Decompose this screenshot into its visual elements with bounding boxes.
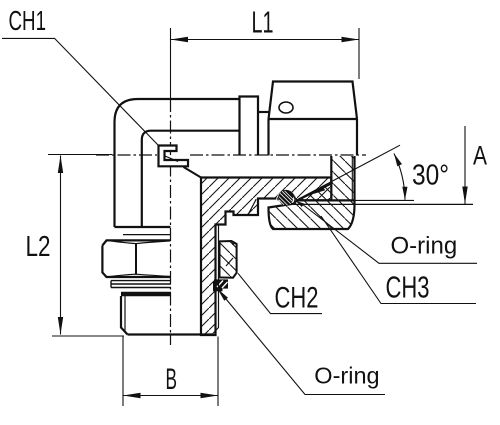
vertical centerline of stud (170, 99, 172, 345)
L2 bottom arrowhead (58, 317, 63, 335)
horizontal centerline through swivel nut (190, 154, 366, 156)
locknut hex facet line (135, 244, 137, 275)
body hex cut profile at centerline (E feature) (159, 146, 189, 167)
O-ring (stud) leader arrowhead (218, 289, 229, 301)
locknut section chamfer tick (226, 258, 233, 266)
B right extension line (217, 337, 219, 407)
elbow body outer contour (115, 99, 240, 227)
svg-text:B: B (166, 363, 178, 396)
L2 bottom extension line (52, 335, 124, 337)
A arrowhead (462, 187, 467, 205)
L1 left arrowhead (171, 37, 189, 42)
O-ring groove outline (278, 191, 295, 200)
nut outer face thin line / A reference line (294, 203, 474, 205)
svg-text:CH2: CH2 (275, 281, 319, 314)
swivel nut cross-section fill (hatched) (269, 156, 355, 229)
stud thread crest line with chamfer (section side) (212, 225, 219, 335)
L1 left extension line (170, 28, 172, 99)
CH3 leader line (321, 216, 476, 304)
svg-text:A: A (473, 141, 487, 171)
arrowhead on 30-degree leg pointing at sealing cone (313, 186, 326, 194)
B dimension line (123, 395, 218, 397)
B left extension line (122, 337, 124, 407)
CH1 leader line (2, 38, 159, 145)
angle 30-degree leg (296, 145, 400, 200)
stud bottom edge (128, 333, 213, 335)
body cross-section (hatched L-shape with flange steps and O-ring groove) (201, 178, 331, 336)
O-ring in nut (section circle) (279, 191, 293, 205)
O-ring groove white pocket (276, 191, 296, 201)
locknut hex cross-section (hatched) (220, 241, 237, 278)
O-ring (nut) leader arrowhead (296, 201, 305, 207)
stud O-ring seal section (black square) (213, 282, 223, 292)
O-ring (nut) leader line (302, 204, 477, 263)
body flange top face (left exterior) (115, 226, 171, 228)
locknut section corner wedge (232, 241, 237, 245)
svg-text:O-ring: O-ring (314, 362, 379, 388)
L2 top extension line (48, 154, 112, 156)
L1 right arrowhead (342, 37, 360, 42)
svg-text:30°: 30° (412, 160, 449, 192)
svg-text:O-ring: O-ring (391, 233, 458, 260)
swivel nut cross-section outline (269, 156, 355, 229)
nut thread minor line (351, 156, 353, 200)
B right arrowhead (201, 393, 219, 398)
elbow body inner corner contour (142, 131, 240, 227)
stud thread root line (left) (124, 296, 126, 331)
exposed thread line under flange (123, 234, 171, 236)
A dimension line (464, 126, 466, 204)
seal ring dark band (exterior) (121, 292, 171, 296)
body hex chamfer inner diagonal (165, 156, 178, 162)
angle dimension arc (394, 154, 405, 200)
horizontal centerline left of body hex (96, 154, 157, 156)
CH2 leader line (238, 273, 322, 313)
svg-text:CH1: CH1 (9, 5, 47, 36)
arc lower arrowhead (402, 187, 407, 200)
seal retaining ring section (dark box) (214, 279, 228, 288)
marking oval on nut face (279, 102, 293, 113)
L2 top arrowhead (58, 156, 63, 174)
O-ring hatch highlights (279, 191, 293, 205)
svg-text:CH3: CH3 (386, 270, 430, 305)
B left arrowhead (123, 393, 141, 398)
washer exterior lines (111, 281, 171, 288)
nut sealing face thick line (295, 199, 355, 201)
svg-text:L1: L1 (252, 6, 274, 40)
O-ring (stud) leader line (219, 291, 385, 395)
seal ring hatch highlights (217, 281, 228, 289)
stud thread outer line with bottom chamfer (left) (121, 296, 128, 335)
body hex chamfer edge to section corner (184, 167, 202, 178)
svg-text:L2: L2 (26, 231, 51, 263)
L2 dimension line (60, 156, 62, 335)
tube end face line (330, 184, 332, 201)
tube nose line (258, 111, 269, 113)
angle horizontal leg (296, 199, 414, 201)
locknut hex exterior outline (102, 240, 170, 277)
swivel nut exterior outline (269, 82, 358, 156)
flange recess chamfer diagonal (248, 199, 256, 215)
arc upper arrowhead (394, 154, 402, 167)
locknut hex top facet arcs (107, 240, 171, 243)
L1 right extension line (358, 28, 360, 79)
locknut hex bottom facet arcs (107, 274, 171, 277)
L1 dimension line (171, 39, 360, 41)
tube collar (240, 97, 259, 156)
